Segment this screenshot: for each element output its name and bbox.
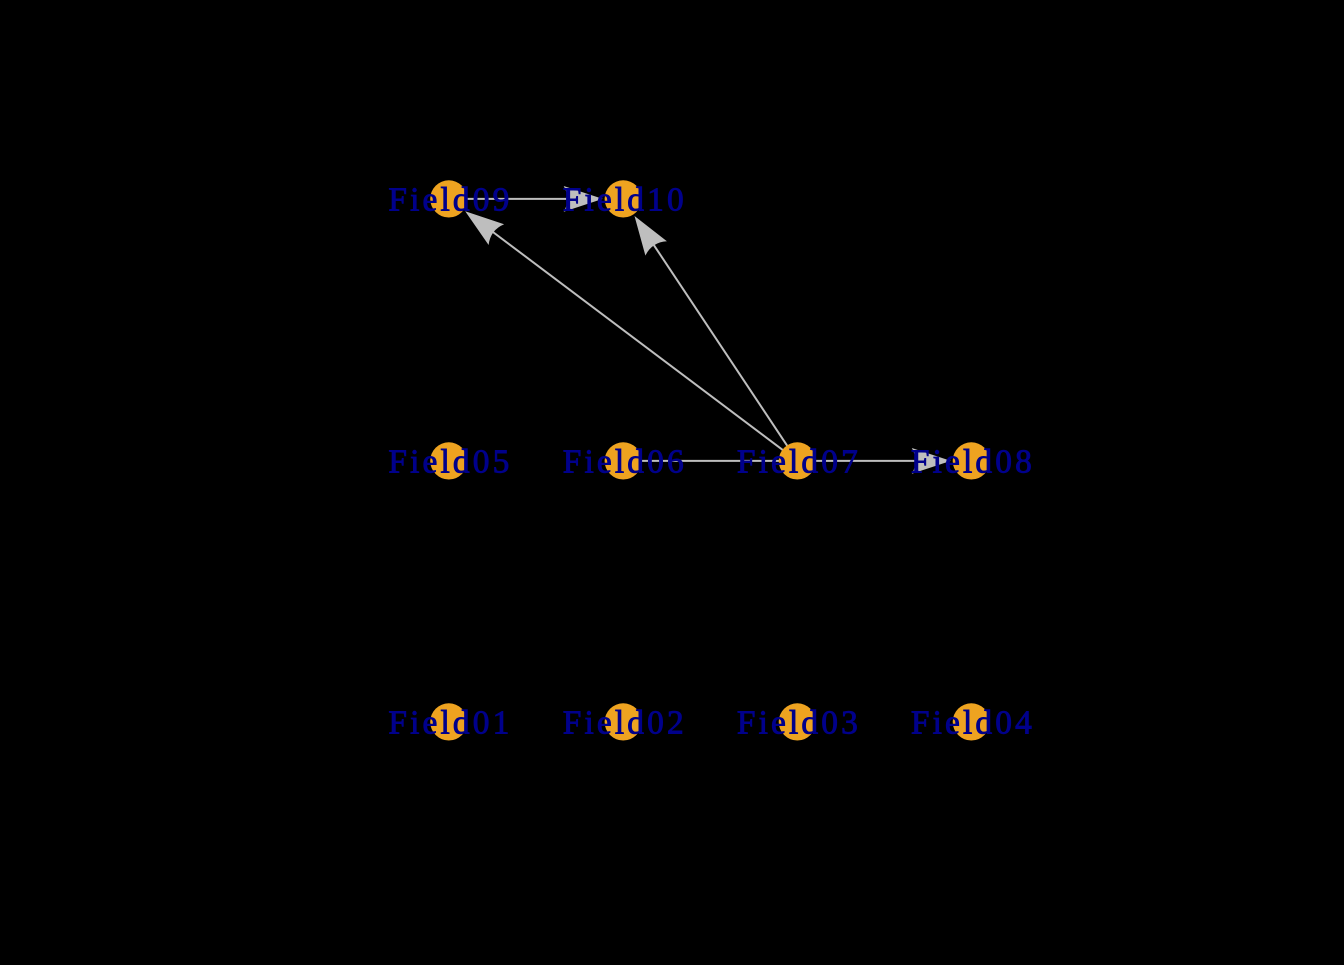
svg-text:Field10: Field10 xyxy=(563,182,687,219)
svg-text:Field01: Field01 xyxy=(388,705,512,742)
svg-text:Field06: Field06 xyxy=(563,444,687,481)
svg-text:Field02: Field02 xyxy=(563,705,687,742)
svg-text:Field04: Field04 xyxy=(911,705,1035,742)
svg-text:Field05: Field05 xyxy=(388,444,512,481)
svg-text:Field09: Field09 xyxy=(388,182,512,219)
svg-text:Field03: Field03 xyxy=(737,705,861,742)
svg-text:Field08: Field08 xyxy=(911,444,1035,481)
svg-text:Field07: Field07 xyxy=(737,444,861,481)
